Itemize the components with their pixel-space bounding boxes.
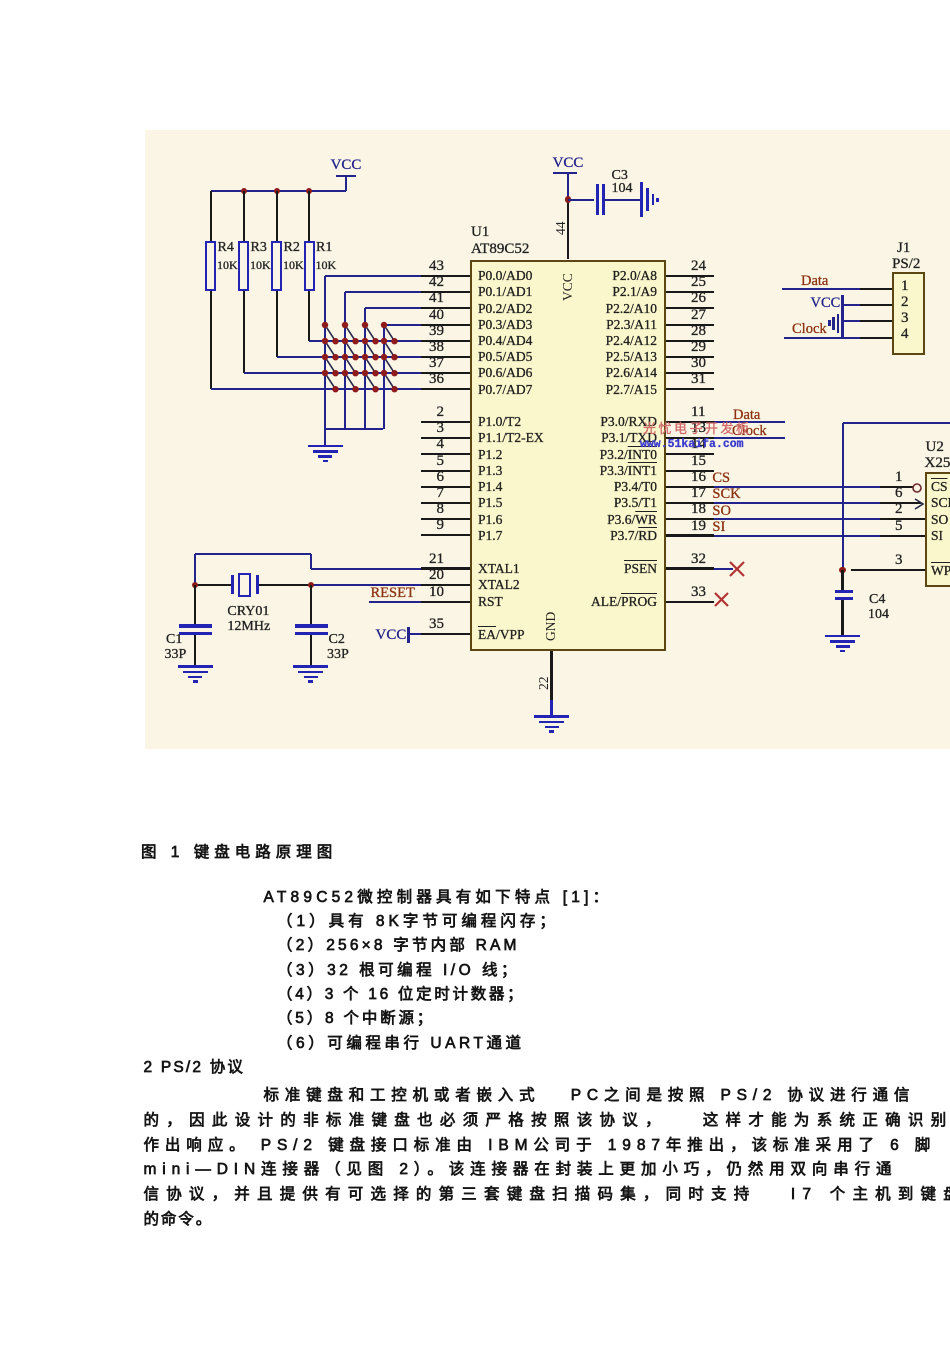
pin 21 (XTAL1)	[421, 567, 470, 569]
ground (C1)	[178, 665, 213, 668]
wire to P0 pin	[325, 275, 421, 277]
wire to P0 pin	[384, 324, 422, 326]
pin 4 (J1)	[860, 337, 893, 339]
pin 3 (U2)	[895, 552, 903, 569]
clock pin arrow (U2 SCK)	[914, 498, 925, 510]
pin 9 (P1.7)	[421, 534, 470, 536]
wire SO	[714, 518, 880, 520]
pin 13	[666, 437, 714, 439]
wire	[325, 428, 383, 430]
paragraph: PS/2 description	[264, 1086, 916, 1107]
ground (J1 pin3)	[843, 320, 860, 322]
no-connect X (ALE)	[714, 592, 729, 607]
power VCC bar / ground bar (J1)	[841, 295, 844, 338]
pin 31	[666, 388, 714, 390]
wire	[194, 554, 196, 585]
capacitor C4 104	[841, 570, 843, 590]
wire	[310, 554, 312, 569]
pin 8 (P1.6)	[421, 518, 470, 520]
pin 29	[666, 356, 714, 358]
pin 25	[666, 291, 714, 293]
wire	[567, 173, 569, 200]
key switch row 2 col 2	[341, 337, 360, 361]
wire to P0 pin	[345, 291, 421, 293]
no-connect X (PSEN)	[729, 561, 745, 577]
resistor R2 10K	[271, 241, 282, 291]
capacitor C1 33P	[194, 585, 196, 625]
wire	[345, 176, 347, 191]
wire rail	[211, 190, 347, 192]
pin 30	[666, 372, 714, 374]
pin 40 (P0.3/AD3)	[421, 324, 470, 326]
wire	[243, 191, 245, 242]
wire CS	[714, 486, 880, 488]
pin 20 (XTAL2)	[421, 584, 470, 586]
value X25045	[925, 455, 950, 472]
wire	[308, 291, 310, 341]
wire to ground	[324, 389, 326, 446]
net label Clock (J1)	[792, 321, 827, 338]
net label SO	[712, 503, 731, 520]
pin 10 (RST)	[421, 601, 470, 603]
key switch row 2 col 4	[380, 337, 399, 361]
pin 32	[666, 567, 714, 569]
ground (C2)	[293, 665, 328, 668]
pin 17	[666, 502, 714, 504]
net label Data	[733, 407, 760, 424]
wire	[568, 199, 594, 201]
pin 41 (P0.2/AD2)	[421, 307, 470, 309]
pin 22 (GND)	[550, 651, 552, 717]
value PS/2	[892, 256, 920, 273]
net label CS	[712, 470, 730, 487]
wire XTAL1	[311, 568, 421, 570]
designator U2	[926, 439, 944, 456]
pin 4 (P1.2)	[421, 453, 470, 455]
junction	[192, 582, 198, 588]
power VCC (EA/VPP) label	[376, 627, 407, 644]
wire	[604, 199, 642, 201]
wire VCC (J1)	[843, 304, 860, 306]
pin 43 (P0.0/AD0)	[421, 275, 470, 277]
pin 14	[666, 453, 714, 455]
keypad row wire	[244, 372, 422, 374]
pin 35 (EA/VPP)	[421, 633, 470, 635]
wire	[258, 584, 311, 586]
pin 28	[666, 340, 714, 342]
resistor R1 10K	[304, 241, 315, 291]
wire XTAL2	[311, 584, 421, 586]
keypad row wire	[277, 356, 422, 358]
watermark url	[640, 438, 744, 452]
wire	[308, 191, 310, 242]
ground (keypad)	[308, 445, 343, 448]
pin 36 (P0.7/AD7)	[421, 388, 470, 390]
net label RESET	[371, 585, 415, 602]
pin 2 (P1.0/T2)	[421, 421, 470, 423]
key switch row 1 col 1	[321, 321, 340, 345]
pin 42 (P0.1/AD1)	[421, 291, 470, 293]
ground (C3)	[640, 182, 643, 217]
pin 5 (P1.3)	[421, 470, 470, 472]
junction	[241, 188, 247, 194]
capacitor C3 104	[596, 184, 599, 215]
wire SCK	[714, 502, 880, 504]
power VCC bar	[553, 172, 577, 175]
key switch row 3 col 4	[380, 353, 399, 377]
pin 39 (P0.4/AD4)	[421, 340, 470, 342]
crystal CRY01 12MHz	[231, 575, 234, 594]
pin 18	[666, 518, 714, 520]
power VCC bar	[407, 627, 410, 643]
wire	[276, 291, 278, 357]
key switch row 4 col 2	[341, 369, 360, 393]
wire Clock	[714, 437, 785, 439]
pin 6 (P1.4)	[421, 486, 470, 488]
inverted pin bubble (U2 CS)	[912, 483, 922, 493]
keypad row wire	[309, 340, 421, 342]
ground (C4)	[825, 635, 860, 638]
pin 6 (U2)	[895, 485, 903, 502]
power VCC (pull-up rail) label	[246, 157, 446, 174]
key switch row 4 col 1	[321, 369, 340, 393]
resistor R4 10K	[205, 241, 216, 291]
keypad column wire	[324, 276, 326, 429]
keypad column wire	[364, 308, 366, 429]
wire to P0 pin	[365, 307, 421, 309]
pin 19	[666, 534, 714, 536]
wire	[210, 191, 212, 242]
pin 33	[666, 601, 714, 603]
wire WP	[851, 569, 925, 571]
power VCC bar	[336, 175, 356, 178]
key switch row 3 col 3	[361, 353, 380, 377]
keypad column wire	[344, 292, 346, 429]
pin 38 (P0.5/AD5)	[421, 356, 470, 358]
value AT89C52	[471, 241, 529, 258]
key switch row 3 col 1	[321, 353, 340, 377]
pin 24	[666, 275, 714, 277]
capacitor C2 33P	[310, 585, 312, 625]
net label SCK	[712, 486, 740, 503]
ground (pin 22)	[534, 715, 569, 718]
pin 7 (P1.5)	[421, 502, 470, 504]
pin 5 (U2)	[895, 518, 903, 535]
designator U1	[471, 224, 489, 241]
wire	[243, 291, 245, 373]
schematic panel background	[145, 130, 950, 749]
key switch row 2 col 1	[321, 337, 340, 361]
pin 1 (J1)	[860, 288, 893, 290]
junction	[274, 188, 280, 194]
pin 3 (J1)	[860, 320, 893, 322]
key switch row 1 col 3	[361, 321, 380, 345]
pin 16	[666, 486, 714, 488]
connector J1 PS/2	[892, 272, 925, 355]
wire	[843, 422, 950, 424]
pin 2 (J1)	[860, 304, 893, 306]
power VCC (J1) label	[811, 295, 841, 312]
wire	[210, 291, 212, 389]
wire	[276, 191, 278, 242]
pin 44 (VCC)	[567, 200, 569, 260]
heading: 2 PS/2 protocol	[144, 1058, 246, 1079]
pin 2 (U2)	[895, 501, 903, 518]
watermark red	[643, 421, 752, 436]
pin 26	[666, 307, 714, 309]
junction	[839, 567, 845, 573]
wire SI	[714, 535, 880, 537]
key switch row 1 col 4	[380, 321, 399, 345]
junction	[565, 196, 571, 202]
caption: figure 1 title	[141, 843, 337, 864]
wire VCC (U2)	[842, 423, 844, 570]
pin 37 (P0.6/AD6)	[421, 372, 470, 374]
key switch row 3 col 2	[341, 353, 360, 377]
key switch row 4 col 3	[361, 369, 380, 393]
pin 1 (U2)	[895, 469, 903, 486]
key switch row 2 col 3	[361, 337, 380, 361]
net label Clock	[732, 423, 767, 440]
junction	[308, 582, 314, 588]
wire	[195, 584, 232, 586]
pin 15	[666, 470, 714, 472]
net label SI	[712, 519, 725, 536]
pin 27	[666, 324, 714, 326]
paragraph: AT89C52 features	[264, 888, 613, 909]
wire Data (J1)	[782, 288, 860, 290]
op IC U1 AT89C52	[470, 260, 666, 652]
IC U2 X25045	[925, 472, 950, 588]
key switch row 4 col 4	[380, 369, 399, 393]
wire	[714, 568, 733, 570]
wire	[195, 553, 311, 555]
designator J1	[897, 240, 910, 257]
pin 3 (P1.1/T2-EX)	[421, 437, 470, 439]
wire Clock (J1)	[784, 337, 860, 339]
junction	[306, 188, 312, 194]
wire RST	[369, 601, 421, 603]
keypad row wire	[211, 388, 422, 390]
resistor R3 10K	[238, 241, 249, 291]
keypad column wire	[383, 325, 385, 429]
power VCC (pin 44) label	[468, 155, 668, 172]
key switch row 1 col 2	[341, 321, 360, 345]
wire Data	[714, 421, 785, 423]
wire	[409, 633, 421, 635]
net label Data (J1)	[801, 273, 828, 290]
pin 11	[666, 421, 714, 423]
